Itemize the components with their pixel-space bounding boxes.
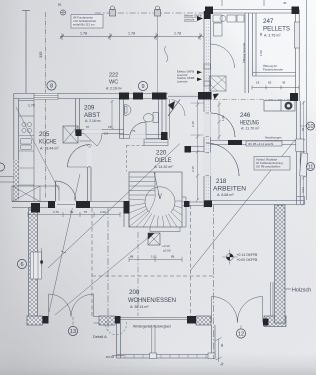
svg-text:58: 58: [301, 127, 305, 131]
svg-text:HEIZUNG: HEIZUNG: [240, 120, 259, 127]
svg-text:A: 3.75 m²: A: 3.75 m²: [264, 34, 281, 38]
svg-text:B1: B1: [58, 3, 62, 7]
svg-text:6: 6: [20, 262, 23, 268]
svg-text:A: 18.44 m²: A: 18.44 m²: [40, 147, 59, 151]
svg-text:15: 15: [108, 125, 112, 129]
svg-text:1.01: 1.01: [151, 255, 157, 259]
svg-text:12: 12: [238, 332, 244, 338]
svg-text:+0.14: +0.14: [162, 244, 170, 248]
svg-text:11: 11: [308, 165, 314, 171]
svg-text:2.15: 2.15: [191, 166, 195, 172]
svg-text:Detail A: Detail A: [93, 334, 107, 339]
svg-text:45: 45: [283, 1, 287, 5]
svg-text:57: 57: [84, 210, 88, 214]
svg-text:R3 06: R3 06: [106, 355, 114, 359]
svg-text:ARBEITEN: ARBEITEN: [213, 186, 246, 193]
svg-text:Förderschnecke: Förderschnecke: [263, 67, 283, 71]
svg-text:89: 89: [70, 210, 74, 214]
svg-text:3.04: 3.04: [301, 187, 305, 193]
svg-text:200: 200: [129, 289, 140, 296]
svg-text:OK FB anschließen: OK FB anschließen: [256, 165, 281, 169]
svg-text:2.5: 2.5: [104, 132, 109, 136]
svg-text:A: 8.68 m²: A: 8.68 m²: [217, 193, 234, 197]
svg-text:18: 18: [256, 81, 260, 85]
svg-text:KÜCHE: KÜCHE: [39, 139, 57, 146]
svg-text:WC: WC: [109, 80, 118, 86]
svg-text:Holzsch: Holzsch: [292, 288, 311, 294]
svg-text:ABST: ABST: [84, 112, 100, 119]
svg-text:75: 75: [132, 129, 136, 133]
svg-text:10: 10: [307, 124, 313, 130]
svg-text:45: 45: [282, 81, 286, 85]
svg-text:98: 98: [259, 32, 263, 36]
svg-text:222: 222: [109, 73, 118, 79]
svg-text:90: 90: [220, 343, 224, 347]
svg-text:57: 57: [86, 125, 90, 129]
svg-text:9: 9: [141, 84, 144, 90]
svg-text:88: 88: [171, 255, 175, 259]
svg-text:entfall Bü 213 cm: entfall Bü 213 cm: [73, 23, 95, 27]
svg-text:Leerrohr: Leerrohr: [184, 18, 195, 22]
svg-text:+0.14 OKFFB: +0.14 OKFFB: [237, 253, 259, 257]
svg-text:A: 38.14 m²: A: 38.14 m²: [130, 305, 149, 309]
svg-text:Öffnung Sensorik: Öffnung Sensorik: [242, 42, 246, 63]
svg-text:DIELE: DIELE: [155, 157, 172, 164]
svg-text:247: 247: [263, 18, 274, 25]
svg-text:A: 11.70 m²: A: 11.70 m²: [241, 127, 260, 131]
svg-text:OK FB +0.12 anschl.: OK FB +0.12 anschl.: [248, 142, 274, 146]
svg-text:Leerrohr: Leerrohr: [177, 79, 188, 83]
svg-text:±0.00: ±0.00: [163, 249, 171, 253]
svg-text:2.15: 2.15: [191, 121, 195, 127]
svg-text:A: 2.19 m²: A: 2.19 m²: [106, 87, 123, 91]
svg-text:Wintergarten festverglast: Wintergarten festverglast: [133, 325, 171, 329]
svg-text:220: 220: [156, 150, 167, 157]
svg-text:2.26: 2.26: [100, 210, 106, 214]
svg-text:WOHNEN/ESSEN: WOHNEN/ESSEN: [128, 297, 176, 304]
svg-text:1.00: 1.00: [259, 50, 263, 56]
svg-text:335: 335: [39, 52, 43, 58]
svg-text:1.01: 1.01: [221, 115, 225, 121]
svg-text:+0.00 OKFFB: +0.00 OKFFB: [237, 258, 259, 262]
svg-text:A: 2.16 m²: A: 2.16 m²: [85, 119, 102, 123]
svg-text:A: 14.32 m²: A: 14.32 m²: [154, 165, 173, 169]
svg-text:88: 88: [130, 255, 134, 259]
svg-text:1.78: 1.78: [174, 32, 181, 36]
svg-text:209: 209: [84, 105, 95, 112]
svg-text:1.78: 1.78: [80, 32, 87, 36]
svg-text:205: 205: [39, 131, 50, 138]
svg-text:218: 218: [216, 178, 227, 185]
svg-text:1.78: 1.78: [128, 32, 135, 36]
svg-text:2.76: 2.76: [53, 210, 59, 214]
svg-text:13: 13: [70, 329, 76, 335]
svg-text:8: 8: [50, 84, 53, 90]
svg-text:PELLETS: PELLETS: [263, 26, 290, 33]
svg-text:246: 246: [240, 112, 251, 119]
svg-text:65: 65: [268, 81, 272, 85]
svg-text:1.78: 1.78: [28, 104, 35, 108]
